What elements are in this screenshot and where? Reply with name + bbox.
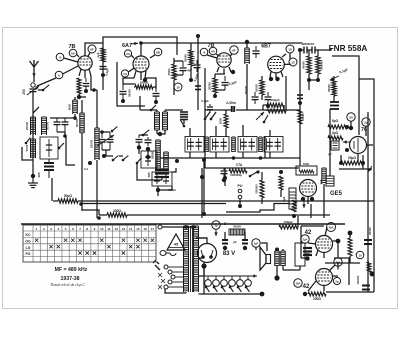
- svg-text:MF = 489 kHz: MF = 489 kHz: [55, 267, 88, 273]
- svg-text:1MΩ: 1MΩ: [303, 162, 310, 166]
- resistor R7 vertical x103: [101, 48, 105, 62]
- svg-text:2µF: 2µF: [254, 242, 259, 246]
- capacitor C3: [85, 78, 87, 82]
- svg-text:OG: OG: [25, 239, 31, 243]
- wire IF row leads: [190, 125, 270, 158]
- capacitor C8 x103: [102, 62, 104, 65]
- pin circle 10 b: [286, 45, 294, 53]
- svg-text:µF: µF: [233, 240, 237, 244]
- resistor R9 column coil: [245, 40, 249, 44]
- wire main horizontal bus y200: [53, 200, 374, 202]
- IF transformer T3 trimmer box: [238, 137, 257, 153]
- capacitor C13: [255, 46, 257, 50]
- vertical resistor R2 50000: [81, 100, 83, 113]
- svg-text:2µΩ: 2µΩ: [332, 131, 339, 135]
- svg-text:200Ω: 200Ω: [313, 297, 321, 301]
- resistor R14 25k vertical: [332, 80, 336, 96]
- junction dot under transformer: [274, 275, 279, 280]
- wire y177 verticals: [202, 168, 225, 218]
- svg-text:2µA: 2µA: [303, 239, 308, 242]
- wire volume pot to bus: [264, 137, 266, 158]
- svg-text:0,1: 0,1: [84, 167, 89, 171]
- junction dots bus: [79, 202, 83, 206]
- svg-text:10: 10: [288, 48, 292, 52]
- wire speaker nets: [256, 243, 310, 270]
- coil L5 vertical: [155, 140, 157, 170]
- svg-text:16: 16: [143, 227, 147, 231]
- wire lamp row left: [203, 266, 205, 276]
- svg-text:25µΩ: 25µΩ: [348, 156, 356, 160]
- junction antenna-ground: [31, 174, 35, 178]
- tuning gang box 1: [40, 137, 58, 159]
- resistor R23 vertical: [279, 176, 283, 190]
- capacitor C9: [147, 137, 149, 139]
- output transformer windings: [274, 251, 276, 266]
- switch S3: [181, 120, 185, 126]
- phono jacks: [238, 189, 242, 193]
- capacitor C24 on x198: [195, 85, 201, 87]
- wire y263 bottom: [325, 262, 360, 264]
- dial lamps: [205, 280, 212, 287]
- resistor R12 50k vertical: [307, 56, 311, 74]
- resistor R26 100000: [229, 169, 247, 173]
- mains plug: [153, 260, 160, 270]
- svg-text:12: 12: [115, 227, 119, 231]
- svg-text:Dessin relevé du ch.p.C.: Dessin relevé du ch.p.C.: [50, 283, 86, 287]
- wire grid lead to antenna coupler: [37, 78, 56, 86]
- capacitor C10 pair with dots: [138, 135, 140, 138]
- capacitor C6: [182, 61, 184, 67]
- switch S11: [151, 105, 156, 110]
- resistor R22 500k vertical: [260, 180, 264, 198]
- svg-text:13: 13: [122, 227, 126, 231]
- wire amorce nets: [309, 50, 318, 80]
- svg-text:50000: 50000: [184, 54, 188, 62]
- resistor R5 300 ohm: [173, 58, 175, 64]
- wire V5 leads: [351, 121, 373, 162]
- svg-text:15: 15: [358, 254, 362, 258]
- pin circle 4.5: [121, 70, 128, 77]
- svg-text:100000µ: 100000µ: [230, 173, 242, 177]
- svg-text:100µΩ: 100µΩ: [283, 220, 293, 224]
- tube V6 magic eye: [300, 180, 317, 197]
- capacitor C5: [155, 89, 157, 92]
- coil L6 vertical: [163, 152, 165, 170]
- coil L1 antenna: [30, 117, 32, 135]
- svg-text:20000: 20000: [128, 89, 132, 97]
- svg-text:B+: B+: [224, 222, 228, 226]
- svg-text:18A: 18A: [296, 282, 301, 286]
- resistor R10 vertical: [260, 80, 264, 95]
- wire 2-30m horizontal: [205, 109, 300, 111]
- junction dot x350: [348, 231, 353, 236]
- capacitor C19: [223, 168, 225, 170]
- svg-text:300Ω: 300Ω: [113, 209, 121, 213]
- capacitor C26 on x300: [297, 94, 303, 96]
- resistor R28 200 ohm: [303, 292, 307, 296]
- resistor R4 25000 oscillator: [135, 85, 153, 89]
- wire x205 vertical: [204, 68, 206, 110]
- oscillator transformer windings: [154, 112, 156, 130]
- capacitor C20 stack: [303, 247, 312, 249]
- electrolytic box 1uF: [326, 176, 334, 186]
- svg-text:20: 20: [349, 116, 353, 120]
- switch S9: [264, 115, 268, 122]
- svg-text:-6: -6: [203, 51, 206, 55]
- pin circle -6: [200, 48, 208, 56]
- svg-text:17: 17: [151, 227, 155, 231]
- capacitor C15: [267, 92, 269, 96]
- svg-text:250: 250: [22, 89, 26, 95]
- capacitor C17 box: [330, 101, 339, 103]
- svg-text:1µF: 1µF: [319, 179, 323, 184]
- wire horizontal bus y214: [81, 210, 330, 215]
- svg-text:GE5: GE5: [330, 191, 343, 197]
- wire antenna column: [32, 110, 34, 176]
- svg-text:20000: 20000: [233, 225, 241, 229]
- tube V9 83: [198, 244, 217, 263]
- wire pin leads V1: [63, 53, 91, 78]
- switch pair on AVC line: [205, 112, 216, 119]
- svg-text:45: 45: [174, 242, 179, 247]
- pin circle 2uA second: [333, 277, 340, 284]
- pin circle 6A b: [209, 47, 217, 55]
- IF winding column 2: [231, 137, 233, 152]
- svg-text:11: 11: [107, 227, 111, 231]
- svg-text:FNR 558A: FNR 558A: [329, 44, 368, 53]
- svg-text:6F: 6F: [90, 48, 94, 52]
- svg-text:25000: 25000: [140, 81, 149, 85]
- svg-text:PU: PU: [238, 184, 243, 188]
- field coil box: [295, 243, 305, 266]
- switch S1b: [26, 138, 30, 143]
- resistor R20 vertical magic eye: [321, 168, 323, 184]
- resistor R13 500k vertical: [316, 56, 320, 74]
- dial lamp bus top: [204, 275, 257, 277]
- capacitor C12 on wire: [232, 106, 234, 112]
- wire antenna lead: [33, 77, 35, 82]
- wire x198 vertical: [197, 36, 199, 110]
- pin circle 6B: [154, 48, 162, 56]
- svg-text:50µΩ: 50µΩ: [64, 194, 72, 198]
- antenna: [30, 60, 39, 67]
- switch S6: [112, 127, 117, 131]
- wire plate V1 to top bus: [85, 43, 103, 56]
- resistor R31 20000 box style: [229, 229, 245, 235]
- wire bus y168 mid: [205, 168, 372, 169]
- capacitor C11 0.1uF: [224, 76, 226, 81]
- capacitor C21 on x368: [364, 239, 372, 241]
- resistor R11 100k horizontal: [267, 109, 286, 113]
- switch S2: [59, 143, 64, 148]
- svg-text:300Ω: 300Ω: [167, 68, 171, 76]
- svg-text:100µΩ: 100µΩ: [270, 98, 280, 102]
- svg-text:20000: 20000: [368, 227, 372, 235]
- wire magic eye nets: [300, 110, 311, 218]
- wire to triangle: [158, 225, 162, 229]
- wire long bus y223: [21, 223, 345, 225]
- resistor R32 on x300: [298, 110, 302, 124]
- electrolytic box: [289, 188, 296, 209]
- pin circle 10: [174, 83, 182, 91]
- svg-text:6B7: 6B7: [261, 44, 271, 50]
- svg-text:10: 10: [100, 227, 104, 231]
- grid cap wire V2: [140, 43, 142, 56]
- oscillator padder cluster: [152, 172, 172, 186]
- table x marks: [35, 239, 38, 242]
- wire x204 vertical to bus: [203, 161, 205, 214]
- svg-text:6000: 6000: [68, 103, 72, 110]
- capacitor C7 0.1uF: [196, 60, 198, 64]
- svg-text:6F: 6F: [232, 49, 236, 53]
- resistor R8 cathode V3: [213, 78, 217, 93]
- wire left col to bus: [51, 178, 53, 201]
- wire x205 long vertical: [204, 110, 206, 168]
- svg-text:50000: 50000: [151, 151, 155, 159]
- tube V8 42 second: [316, 269, 333, 286]
- coil L2: [30, 139, 32, 158]
- IF transformer T1 trimmer box: [185, 137, 204, 153]
- capacitor C16 series pair: [300, 49, 332, 51]
- frequency table grid: [23, 225, 156, 262]
- svg-text:PO: PO: [26, 252, 31, 256]
- coil L3 secondary: [41, 117, 43, 135]
- pin circle 12: [289, 58, 297, 66]
- IF winding column 3: [258, 137, 260, 152]
- pin circle 6F b: [230, 46, 238, 54]
- wire top bus right: [141, 42, 302, 44]
- power transformer core: [190, 226, 192, 292]
- junction dots y177: [223, 176, 227, 180]
- pin circle 2u: [362, 118, 370, 126]
- IF winding column 1: [204, 137, 206, 152]
- wire osc top: [140, 109, 183, 111]
- wire IF row bus y158: [160, 157, 300, 159]
- svg-text:1µF: 1µF: [96, 52, 100, 57]
- wire pin leads V2: [129, 55, 156, 80]
- svg-text:0,1µF: 0,1µF: [201, 99, 209, 103]
- svg-text:25000: 25000: [327, 84, 331, 92]
- volume pot arrow: [256, 112, 264, 120]
- svg-text:8µF: 8µF: [282, 196, 286, 201]
- pin circle 29A: [327, 223, 336, 232]
- pin circle 6: [55, 71, 63, 79]
- svg-text:20000: 20000: [25, 121, 29, 130]
- wire box 42 stage: [301, 226, 324, 258]
- pin circle 15: [356, 251, 364, 259]
- capacitor C18 box: [331, 141, 339, 150]
- wire right vertical bus x368: [367, 112, 369, 292]
- wire osc cathode link: [139, 96, 141, 110]
- padder capacitor stack 2: [155, 169, 169, 171]
- switch S7 S8 row: [113, 156, 118, 160]
- svg-text:CTA: CTA: [236, 163, 243, 167]
- svg-text:20000: 20000: [208, 82, 212, 90]
- svg-text:15: 15: [136, 227, 140, 231]
- padder capacitor stack: [48, 159, 50, 162]
- capacitor C22: [362, 285, 370, 287]
- wire mains bottom: [165, 289, 186, 293]
- mains terminals: [164, 265, 168, 269]
- wire top bus left: [103, 37, 177, 75]
- svg-text:KC: KC: [26, 233, 31, 237]
- band switch S1a: [43, 85, 49, 90]
- resistor R25 vertical x225: [224, 114, 228, 128]
- svg-text:5000: 5000: [25, 144, 29, 151]
- svg-text:2µ: 2µ: [335, 280, 339, 284]
- wire V1 bottom: [79, 76, 97, 97]
- pin circle -5: [56, 53, 64, 61]
- pin circle 18A: [294, 279, 302, 287]
- svg-text:2µ: 2µ: [364, 121, 368, 125]
- svg-text:83 V: 83 V: [223, 251, 235, 257]
- resistor R3 cathode: [77, 78, 81, 94]
- arrow grid V5: [343, 141, 351, 143]
- svg-text:-5: -5: [59, 56, 62, 60]
- band switch on antenna column: [33, 107, 39, 113]
- magic eye box with resistor: [296, 166, 317, 175]
- resistor R6 50000 screen: [190, 43, 192, 50]
- wire pin leads V4: [270, 54, 291, 78]
- wire V4 nets: [286, 53, 290, 111]
- svg-text:50000: 50000: [255, 84, 259, 92]
- svg-text:29A: 29A: [329, 226, 334, 230]
- wire bottom right nets: [326, 241, 374, 292]
- glasses symbol: [160, 251, 176, 256]
- svg-text:485: 485: [37, 172, 41, 177]
- tuning gang variable capacitor: [100, 130, 104, 134]
- antenna coupling trimmer: [31, 83, 35, 87]
- transformer taps: [199, 238, 208, 294]
- speaker cone: [260, 247, 266, 270]
- switch S4: [143, 130, 149, 135]
- resistor R27 vertical 5k: [348, 238, 352, 256]
- power transformer secondary: [193, 226, 195, 292]
- grid coil V1: [72, 100, 74, 114]
- svg-text:5000: 5000: [219, 117, 223, 124]
- svg-text:2-30m: 2-30m: [226, 101, 236, 105]
- svg-text:30000: 30000: [46, 121, 50, 130]
- svg-text:14: 14: [129, 227, 133, 231]
- padder coil core: [180, 111, 188, 113]
- capacitor C1 pair: [56, 118, 58, 122]
- resistor R29 vertical right: [367, 262, 371, 272]
- wire right top nets: [300, 50, 309, 110]
- pin circle 2uA: [301, 235, 309, 243]
- svg-text:4,5: 4,5: [123, 72, 127, 76]
- pin circle 2u B+: [212, 221, 220, 229]
- junction dot under 83: [201, 263, 206, 268]
- power transformer primary: [183, 226, 185, 292]
- capacitor C14: [254, 92, 256, 96]
- coil L4 right column: [96, 95, 98, 128]
- switch S5: [137, 158, 141, 163]
- pin circle 2A: [124, 50, 131, 57]
- wire horizontal bus y204: [81, 204, 290, 213]
- svg-text:LG: LG: [26, 246, 31, 250]
- switch S10: [250, 172, 257, 176]
- capacitor C4: [122, 84, 124, 90]
- wire x330 column: [329, 109, 331, 176]
- resistor R21 zigzag: [292, 200, 296, 212]
- wire cathode box V2: [117, 62, 145, 106]
- box oscillator section: [141, 151, 157, 168]
- pin circle 6A: [69, 49, 77, 57]
- pin circle 29A second: [334, 258, 342, 266]
- svg-text:500000: 500000: [320, 60, 324, 70]
- pin circle 2uF speaker: [252, 239, 260, 247]
- wire V8 stage box: [334, 258, 349, 285]
- pin circle 20: [347, 113, 355, 121]
- dial lamp bus bottom: [204, 293, 262, 295]
- svg-text:100000: 100000: [356, 275, 360, 284]
- wire right vertical bus x374: [359, 79, 374, 292]
- svg-text:25000: 25000: [90, 139, 94, 148]
- svg-text:10: 10: [176, 86, 180, 90]
- pin circle 6F: [88, 45, 96, 53]
- capacitor C2 with dot: [88, 161, 92, 165]
- svg-text:1937-38: 1937-38: [60, 276, 79, 282]
- wire V8 leads: [308, 265, 338, 291]
- svg-text:Amorce: Amorce: [302, 42, 315, 46]
- svg-text:2µ: 2µ: [214, 224, 218, 228]
- voltage selector x marks: [158, 273, 162, 277]
- tube V7 42: [316, 236, 333, 253]
- capacitor C23 pair at 83: [222, 239, 228, 241]
- IF transformer T2 trimmer box: [210, 137, 229, 153]
- svg-text:12: 12: [291, 61, 295, 65]
- wire V7 leads: [308, 227, 338, 258]
- wire pin leads V3: [207, 54, 232, 74]
- svg-text:500000: 500000: [255, 184, 259, 194]
- wire right vertical bus x359: [332, 56, 359, 135]
- ground: [32, 178, 34, 183]
- svg-text:5µΩ: 5µΩ: [332, 119, 339, 123]
- wire y169 arrowed: [368, 166, 372, 172]
- svg-text:485: 485: [147, 172, 151, 177]
- svg-text:6A7: 6A7: [122, 43, 132, 49]
- svg-text:50000: 50000: [301, 113, 305, 121]
- svg-text:50000: 50000: [302, 61, 306, 69]
- IF transformer T4 trimmer box: [264, 137, 283, 153]
- wire x66 column: [66, 137, 75, 165]
- triangle 45: [167, 234, 185, 250]
- wire V2 bottom nets: [123, 78, 156, 89]
